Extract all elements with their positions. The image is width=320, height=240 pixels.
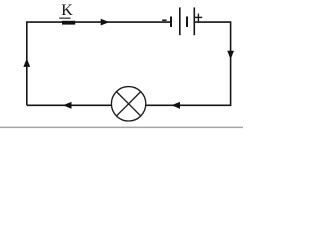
svg-text:K: K	[61, 2, 73, 19]
